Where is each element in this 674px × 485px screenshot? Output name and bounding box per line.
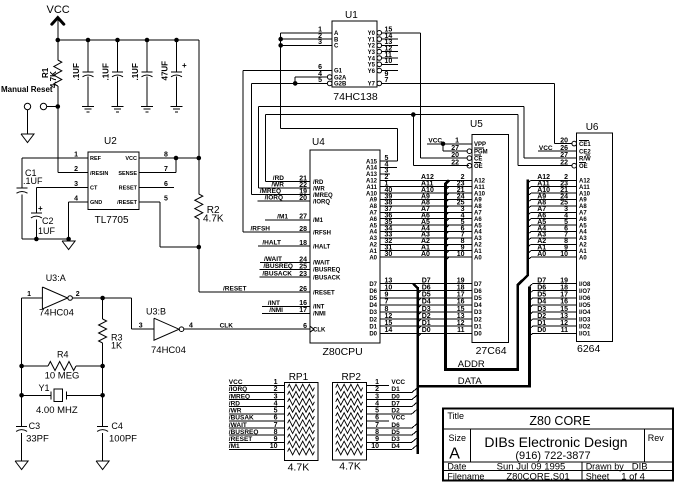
svg-text:A3: A3 [369,236,377,242]
wire /WR rail to U6.R/W [258,187,310,189]
svg-text:D5: D5 [474,296,482,302]
svg-text:6: 6 [274,415,278,422]
svg-text:/RFSH: /RFSH [313,230,331,236]
svg-text:/NMI: /NMI [269,307,283,314]
capacitor C4 100PF [97,425,108,427]
svg-text:I/O5: I/O5 [579,303,591,309]
wire VCC rail [58,39,199,41]
svg-text:/BUSACK: /BUSACK [262,271,292,278]
svg-text:OE: OE [579,164,588,170]
wire A15 stub from U4 [380,160,398,162]
svg-text:Y6: Y6 [368,69,376,75]
wire Y0 to U5 /CE [382,32,421,34]
svg-text:VCC: VCC [229,379,243,386]
svg-text:Y7: Y7 [368,82,376,88]
wires D7..D0 from U4 to U5 with net labels and pin numbers [380,283,472,285]
svg-text:4: 4 [274,400,278,407]
svg-text:/IORQ: /IORQ [313,199,330,205]
svg-text:A10: A10 [366,191,378,197]
svg-text:Y1: Y1 [39,383,50,393]
svg-text:A7: A7 [579,211,587,217]
svg-text:9: 9 [274,436,278,443]
wire VCC down from rail [198,40,200,158]
svg-text:I/O1: I/O1 [579,332,591,338]
svg-text:Z80CORE.S01: Z80CORE.S01 [506,471,569,482]
svg-text:I/O8: I/O8 [579,282,591,288]
svg-text:/M1: /M1 [229,443,240,450]
svg-text:I/O2: I/O2 [579,324,591,330]
svg-text:A0: A0 [474,255,482,261]
resistor R2 4.7K [198,158,200,194]
svg-text:C2: C2 [42,216,54,226]
wire RP1 pin 8 /BUSREQ [229,434,285,436]
svg-text:C4: C4 [111,421,123,431]
svg-text:A7: A7 [474,211,482,217]
svg-text:4.7K: 4.7K [339,461,361,473]
svg-text:18: 18 [457,285,465,292]
resistor R3 1K [102,298,104,319]
svg-text:19: 19 [457,277,465,284]
svg-text:D2: D2 [391,408,400,415]
svg-text:2: 2 [274,386,278,393]
svg-text:D1: D1 [474,324,482,330]
wire U1.B [281,38,332,40]
svg-text:/BUSREQ: /BUSREQ [263,263,293,270]
svg-text:74HC04: 74HC04 [39,308,74,319]
svg-text:/RD: /RD [313,180,324,186]
svg-text:1K: 1K [111,341,122,351]
left rail of oscillator [21,298,23,426]
resistor R1 [57,40,59,60]
svg-text:RP2: RP2 [342,372,362,383]
svg-text:3: 3 [74,181,78,188]
svg-text:/WR: /WR [229,408,242,415]
svg-text:D6: D6 [422,285,431,292]
svg-text:5: 5 [164,196,168,203]
svg-text:Sheet: Sheet [586,471,610,481]
wire U2 pin3 CT to C2 [36,186,88,188]
svg-text:A4: A4 [369,230,377,236]
svg-text:D7: D7 [391,400,400,407]
svg-text:74HC138: 74HC138 [333,91,378,103]
svg-text:D0: D0 [391,393,400,400]
svg-text:7: 7 [274,422,278,429]
svg-text:/INT: /INT [268,300,280,307]
svg-text:10 MEG: 10 MEG [45,371,80,382]
svg-text:Z80CPU: Z80CPU [323,346,363,358]
svg-text:74HC04: 74HC04 [151,345,186,356]
svg-text:OE: OE [474,164,483,170]
svg-text:D5: D5 [422,292,431,299]
svg-text:U3:A: U3:A [46,273,66,283]
svg-text:/MREQ: /MREQ [313,193,333,199]
svg-text:A2: A2 [579,243,587,249]
svg-text:A8: A8 [369,204,377,210]
wire /RD rail to U5./OE U6./OE [265,181,310,183]
svg-text:12: 12 [457,320,465,327]
ground [15,461,28,470]
svg-text:DIBs Electronic Design: DIBs Electronic Design [484,434,627,450]
svg-text:D7: D7 [369,282,377,288]
wire RP1 pin 5 /WR [229,413,285,415]
wire U3:A output [72,297,131,299]
svg-text:A3: A3 [474,236,482,242]
svg-text:VCC: VCC [391,415,405,422]
wire /M1 stub [265,219,310,221]
svg-text:D1: D1 [369,324,377,330]
svg-text:U4: U4 [312,137,325,148]
wire U3:A input [22,297,43,299]
U1 input bubbles G2A G2B [327,75,332,80]
svg-text:A1: A1 [369,249,377,255]
wire RP1 pin 9 /RESET [229,441,285,443]
svg-text:27C64: 27C64 [476,345,507,357]
svg-text:D2: D2 [474,317,482,323]
wire U2 pin5 /RESET [139,201,160,203]
svg-text:A0: A0 [421,251,430,258]
svg-text:D4: D4 [391,443,400,450]
svg-text:1: 1 [74,152,78,159]
svg-text:26: 26 [299,286,307,293]
svg-text:33PF: 33PF [26,434,49,445]
svg-text:+: + [182,61,187,70]
svg-text:I/O6: I/O6 [579,296,591,302]
svg-text:16: 16 [457,299,465,306]
wire U1.A net from U4.A15 [281,32,332,34]
wire /IORQ stub [258,200,310,202]
svg-text:2: 2 [74,166,78,173]
svg-text:A11: A11 [474,185,485,191]
svg-text:1 of 4: 1 of 4 [621,471,645,482]
wire RP1 pin 7 /WAIT [229,427,285,429]
svg-text:Y0: Y0 [368,31,376,37]
svg-text:100PF: 100PF [109,434,137,445]
svg-text:REF: REF [90,156,102,162]
svg-text:I/O3: I/O3 [579,317,591,323]
svg-text:D2: D2 [369,317,377,323]
svg-text:/RESET: /RESET [117,200,138,206]
wire A14 stub [380,167,397,169]
wire U2 pin7 SENSE [139,172,176,174]
svg-text:A6: A6 [579,217,587,223]
svg-text:A11: A11 [579,185,590,191]
svg-text:A2: A2 [474,243,482,249]
svg-text:Title: Title [447,411,464,421]
svg-text:A12: A12 [474,179,486,185]
svg-text:U3:B: U3:B [146,307,166,317]
svg-text:VPP: VPP [474,142,486,148]
svg-text:D3: D3 [474,310,482,316]
capacitor 47UF (decoupling) [174,38,179,43]
svg-text:/HALT: /HALT [262,240,281,247]
svg-text:Y4: Y4 [368,56,376,62]
svg-text:/WAIT: /WAIT [313,261,330,267]
svg-text:A3: A3 [579,236,587,242]
wire CLK to U4 [184,328,310,330]
wire /HALT stub [258,245,310,247]
svg-text:27: 27 [560,152,568,159]
svg-text:D3: D3 [422,306,431,313]
svg-text:/M1: /M1 [277,213,288,220]
svg-text:A12: A12 [366,179,378,185]
svg-text:1: 1 [274,379,278,386]
wire U2 pin1 REF to C1 [22,157,88,159]
svg-text:A11: A11 [366,185,377,191]
svg-text:/INT: /INT [313,305,325,311]
resistor pack RP1 4.7K [284,383,318,461]
wire /RFSH to G1 [243,231,310,233]
wire U2 pin8 VCC [139,157,199,159]
svg-text:RP1: RP1 [289,372,309,383]
svg-text:6264: 6264 [577,343,601,355]
svg-text:A15: A15 [366,159,378,165]
svg-text:.1UF: .1UF [23,176,43,186]
svg-text:RESET: RESET [119,186,138,192]
svg-text:GND: GND [90,200,102,206]
svg-text:A10: A10 [579,191,591,197]
svg-text:Y3: Y3 [368,50,376,56]
svg-text:A4: A4 [579,230,587,236]
svg-text:D7: D7 [422,277,431,284]
svg-text:D7: D7 [474,282,482,288]
capacitor C3 33PF [21,425,23,427]
ground [112,105,124,107]
svg-text:/NMI: /NMI [313,312,326,318]
wire /MREQ to U1.G2B/G2A [252,82,328,84]
svg-text:11: 11 [457,327,465,334]
svg-text:A13: A13 [366,172,378,178]
svg-text:/WAIT: /WAIT [229,422,247,429]
svg-text:/WAIT: /WAIT [264,256,282,263]
svg-text:15: 15 [457,306,465,313]
wire U2 pin4 GND [69,201,88,203]
svg-text:47UF: 47UF [161,61,170,81]
svg-text:/RESET: /RESET [229,436,253,443]
wire /BUSREQ stub [260,269,311,271]
wire RP1 pin 10 /M1 [229,448,285,450]
svg-text:.1UF: .1UF [131,63,140,80]
svg-text:U5: U5 [470,119,483,130]
wire /NMI stub [262,312,310,314]
wire /RESET to U4 [198,247,200,292]
svg-text:Drawn by: Drawn by [586,462,625,472]
svg-text:I/O7: I/O7 [579,289,591,295]
svg-text:.1UF: .1UF [72,63,81,80]
svg-text:A0: A0 [579,255,587,261]
svg-text:U6: U6 [586,122,599,133]
ground [96,461,109,470]
wire A15 horizontal [281,127,398,129]
U4 CLK wedge [310,326,314,332]
svg-text:/RD: /RD [229,400,241,407]
svg-text:/BUSREQ: /BUSREQ [313,268,341,274]
svg-text:/BUSAK: /BUSAK [229,415,254,422]
svg-text:D5: D5 [369,296,377,302]
svg-text:/BUSREQ: /BUSREQ [229,429,259,436]
wire /WAIT stub [260,262,310,264]
U1 output bubbles and stubs [377,31,382,36]
svg-text:A1: A1 [579,249,587,255]
wire RP1 pin 1 VCC [229,384,285,386]
svg-text:C: C [334,44,339,50]
svg-text:1UF: 1UF [38,226,56,236]
ground [141,105,153,107]
wire A15 vertical [397,128,399,161]
capacitor C2 1UF [35,187,37,213]
svg-text:A9: A9 [369,198,377,204]
svg-text:/IORQ: /IORQ [265,195,283,202]
svg-text:2: 2 [76,291,80,298]
resistor pack RP2 4.7K [333,383,367,461]
svg-text:U1: U1 [345,10,358,21]
svg-text:A5: A5 [474,223,482,229]
wire U1.C [281,44,332,46]
svg-text:D1: D1 [422,320,431,327]
svg-text:Date: Date [447,462,466,472]
svg-text:4: 4 [189,323,193,330]
svg-text:A: A [449,446,460,463]
ground [171,105,183,107]
svg-text:C3: C3 [29,421,41,431]
svg-text:A0: A0 [369,255,377,261]
svg-text:A5: A5 [369,223,377,229]
ground [62,241,75,250]
svg-text:/MREQ: /MREQ [229,393,250,400]
wire A13 stub [380,173,390,175]
svg-text:TL7705: TL7705 [95,215,129,226]
svg-text:A12: A12 [579,179,591,185]
svg-text:Rev: Rev [648,433,665,443]
svg-text:G2A: G2A [334,75,347,81]
svg-text:10: 10 [385,58,393,65]
wire RP1 pin 3 /MREQ [229,399,285,401]
svg-text:Manual Reset: Manual Reset [1,85,53,94]
svg-text:13: 13 [457,313,465,320]
svg-text:/WR: /WR [313,186,325,192]
svg-text:D6: D6 [369,289,377,295]
svg-text:A10: A10 [474,191,486,197]
svg-text:/MREQ: /MREQ [260,188,281,195]
capacitor .1UF (decoupling) [86,38,91,43]
right rail of oscillator [102,366,104,426]
svg-text:Y5: Y5 [368,63,376,69]
svg-text:G1: G1 [334,69,343,75]
svg-text:Z80 CORE: Z80 CORE [529,414,590,428]
svg-text:8: 8 [164,152,168,159]
svg-text:5: 5 [274,408,278,415]
svg-text:10: 10 [457,251,465,258]
wire RP1 pin 6 /BUSAK [229,420,285,422]
wire RP1 pin 2 /IORQ [229,392,285,394]
svg-text:I/O4: I/O4 [579,310,591,316]
svg-text:CE1: CE1 [579,142,591,148]
svg-text:.1UF: .1UF [102,63,111,80]
svg-text:A7: A7 [369,211,377,217]
svg-text:17: 17 [457,292,465,299]
svg-text:VCC: VCC [391,379,405,386]
svg-text:/RESET: /RESET [223,286,247,293]
svg-text:A4: A4 [474,230,482,236]
svg-text:22: 22 [451,160,459,167]
svg-text:A6: A6 [369,217,377,223]
svg-text:A1: A1 [474,249,482,255]
svg-text:Y2: Y2 [368,44,376,50]
svg-text:D6: D6 [474,289,482,295]
wire /INT stub [262,305,310,307]
ADDR bus (thick) [446,180,450,184]
title block [443,409,673,481]
svg-text:D5: D5 [391,429,400,436]
svg-text:D4: D4 [422,299,431,306]
svg-text:A14: A14 [366,166,378,172]
svg-text:A9: A9 [579,198,587,204]
wires A12..A0 from U4 to U5 with net labels and pin numbers [380,179,472,181]
svg-text:/M1: /M1 [313,218,324,224]
svg-text:CLK: CLK [220,323,234,330]
svg-text:4.7K: 4.7K [203,214,224,225]
svg-text:DATA: DATA [458,376,483,387]
svg-text:A2: A2 [369,243,377,249]
svg-text:/HALT: /HALT [313,244,331,250]
svg-text:A9: A9 [474,198,482,204]
svg-text:Size: Size [449,433,467,443]
svg-text:1: 1 [27,291,31,298]
svg-text:SENSE: SENSE [118,171,137,177]
svg-text:U2: U2 [104,136,117,147]
svg-text:+: + [38,204,43,213]
svg-text:CT: CT [90,186,98,192]
svg-text:A6: A6 [474,217,482,223]
svg-text:/RESIN: /RESIN [90,171,108,177]
svg-text:D3: D3 [391,436,400,443]
svg-text:3: 3 [139,323,143,330]
svg-text:CLK: CLK [313,327,326,333]
svg-text:VCC: VCC [125,156,137,162]
wire reset net down to U2 pin2 [57,107,59,173]
DATA bus (thick) [413,284,418,289]
svg-text:D4: D4 [474,303,482,309]
svg-text:B: B [334,37,339,43]
svg-text:Filename: Filename [447,471,484,481]
svg-text:22: 22 [560,160,568,167]
svg-text:D4: D4 [369,303,377,309]
svg-text:/RESET: /RESET [313,290,335,296]
svg-text:A: A [334,31,339,37]
wire /BUSACK stub [260,276,311,278]
svg-text:R4: R4 [57,349,69,359]
svg-text:D0: D0 [422,327,431,334]
wire Y7 to U6 CE1 [382,82,555,84]
svg-text:D6: D6 [391,422,400,429]
svg-text:8: 8 [274,429,278,436]
wire U2 pin6 stub [139,186,174,188]
svg-text:D3: D3 [369,310,377,316]
capacitor .1UF (decoupling) [145,38,150,43]
capacitor .1UF (decoupling) [115,38,120,43]
resistor R4 10 MEG [22,365,48,367]
input port triangle [21,134,34,143]
svg-text:6: 6 [164,181,168,188]
wire gnd rail [22,238,69,240]
svg-text:D2: D2 [422,313,431,320]
ground [82,105,94,107]
svg-text:(916) 722-3877: (916) 722-3877 [515,450,590,462]
wire /RFSH to U1.G1 [243,69,332,71]
wire RP1 pin 4 /RD [229,406,285,408]
svg-text:CE: CE [474,157,482,163]
svg-text:/RFSH: /RFSH [251,226,271,233]
svg-text:/BUSACK: /BUSACK [313,275,341,281]
